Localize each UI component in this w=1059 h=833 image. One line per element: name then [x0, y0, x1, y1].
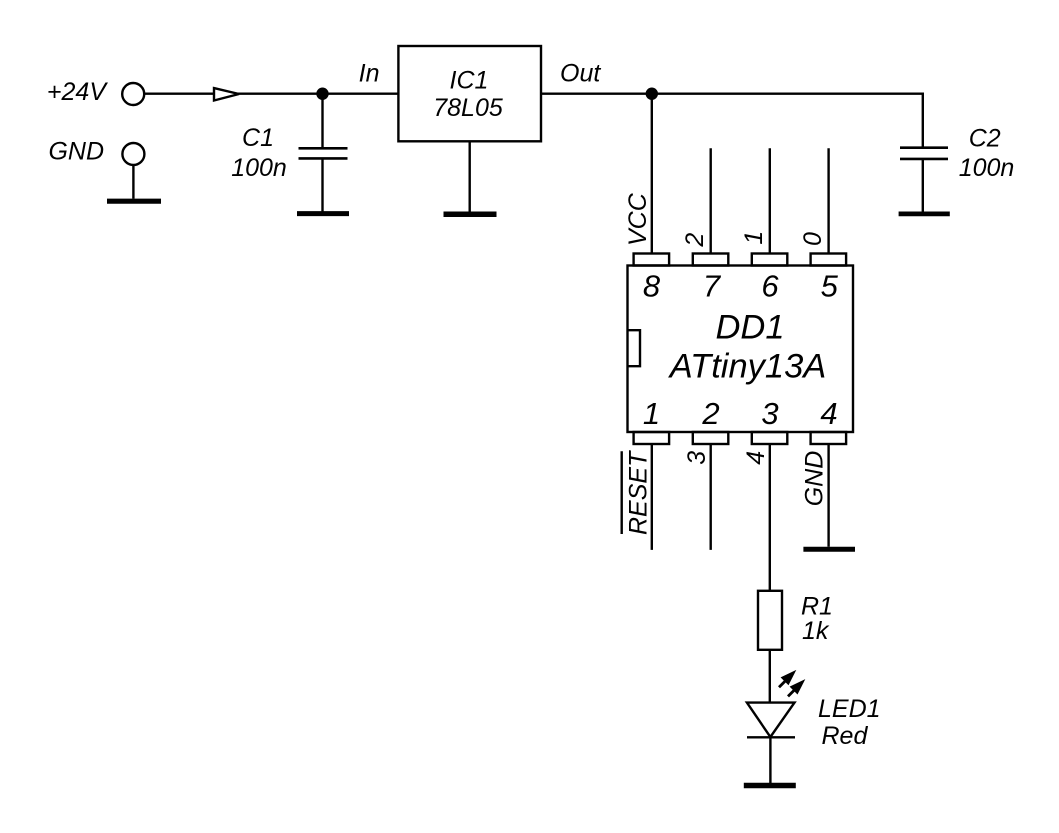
svg-text:100n: 100n: [959, 154, 1015, 182]
svg-text:78L05: 78L05: [433, 94, 503, 122]
svg-text:+24V: +24V: [47, 78, 108, 106]
svg-text:1: 1: [740, 231, 768, 245]
svg-text:Red: Red: [822, 722, 869, 750]
svg-text:Out: Out: [560, 60, 601, 88]
svg-text:C2: C2: [969, 124, 1001, 152]
svg-text:3: 3: [761, 396, 778, 431]
svg-text:100n: 100n: [231, 154, 287, 182]
svg-text:5: 5: [821, 268, 839, 303]
svg-text:LED1: LED1: [818, 695, 881, 723]
svg-text:GND: GND: [48, 138, 104, 166]
svg-text:4: 4: [820, 396, 837, 431]
svg-text:1k: 1k: [802, 617, 830, 645]
svg-text:1: 1: [643, 396, 660, 431]
svg-text:C1: C1: [242, 124, 274, 152]
svg-text:2: 2: [701, 396, 719, 431]
svg-text:DD1: DD1: [715, 309, 784, 347]
svg-text:0: 0: [799, 232, 827, 246]
svg-text:In: In: [359, 60, 380, 88]
svg-text:8: 8: [643, 268, 661, 303]
svg-text:GND: GND: [800, 451, 828, 507]
svg-text:3: 3: [683, 451, 711, 465]
svg-text:VCC: VCC: [624, 192, 652, 246]
svg-text:2: 2: [681, 233, 709, 248]
svg-text:6: 6: [761, 268, 779, 303]
svg-text:IC1: IC1: [450, 66, 489, 94]
svg-text:ATtiny13A: ATtiny13A: [668, 347, 827, 385]
svg-text:7: 7: [703, 268, 722, 303]
svg-text:RESET: RESET: [625, 450, 653, 535]
svg-text:4: 4: [742, 451, 770, 465]
